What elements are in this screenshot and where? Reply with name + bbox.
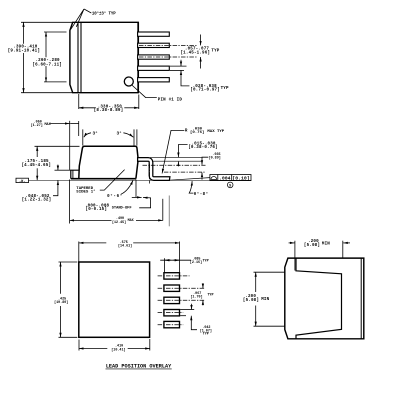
svg-text:.004: .004 (219, 176, 231, 182)
svg-text:SIDES 1°: SIDES 1° (76, 190, 95, 195)
svg-text:[0.76]: [0.76] (190, 130, 204, 135)
svg-text:[1.27]: [1.27] (31, 123, 43, 128)
svg-text:TYP: TYP (221, 87, 229, 91)
svg-text:LEAD POSITION OVERLAY: LEAD POSITION OVERLAY (106, 363, 172, 369)
svg-text:MAX: MAX (128, 219, 135, 223)
svg-text:[9.91-10.41]: [9.91-10.41] (8, 49, 40, 54)
svg-text:TYP: TYP (203, 333, 209, 337)
svg-text:TYP: TYP (203, 260, 209, 264)
svg-text:TYP: TYP (207, 294, 213, 298)
svg-text:[0.89]: [0.89] (209, 155, 221, 160)
svg-text:[5.08]: [5.08] (243, 298, 259, 303)
svg-text:3°: 3° (93, 131, 98, 136)
svg-text:MIN: MIN (322, 242, 330, 246)
svg-text:S: S (229, 184, 232, 188)
svg-text:[10.41]: [10.41] (111, 347, 125, 352)
svg-text:[5.08]: [5.08] (304, 243, 320, 248)
svg-text:[0-0.15]: [0-0.15] (86, 207, 108, 212)
svg-text:[1.70]: [1.70] (190, 294, 202, 299)
svg-text:[4.45-4.65]: [4.45-4.65] (21, 163, 51, 168)
svg-text:TYP: TYP (211, 50, 219, 54)
svg-text:[1.22-1.32]: [1.22-1.32] (22, 198, 52, 203)
svg-text:0°-8°: 0°-8° (194, 192, 209, 197)
svg-text:R: R (185, 130, 188, 134)
svg-text:[12.45]: [12.45] (112, 220, 126, 225)
svg-text:[6.60-7.11]: [6.60-7.11] (32, 62, 62, 67)
svg-text:STAND-OFF: STAND-OFF (112, 206, 132, 210)
svg-text:-W-: -W- (19, 180, 25, 184)
svg-text:[10.80]: [10.80] (54, 300, 68, 305)
svg-text:MAX TYP: MAX TYP (207, 130, 224, 134)
svg-text:0°-6°: 0°-6° (107, 194, 123, 199)
svg-text:[0.71-0.97]: [0.71-0.97] (190, 88, 220, 93)
svg-text:[1.45-1.96]: [1.45-1.96] (180, 50, 210, 55)
svg-text:PIN #1 ID: PIN #1 ID (158, 98, 183, 102)
svg-text:3°: 3° (117, 131, 122, 136)
svg-text:MIN: MIN (261, 298, 269, 302)
svg-text:[0.10]: [0.10] (232, 176, 249, 182)
svg-text:10°±3° TYP: 10°±3° TYP (92, 12, 116, 17)
svg-text:[8.38-8.89]: [8.38-8.89] (94, 108, 124, 113)
svg-text:[14.61]: [14.61] (118, 243, 132, 248)
svg-text:[2.16]: [2.16] (190, 260, 202, 265)
svg-text:MAX: MAX (45, 123, 52, 127)
svg-text:[0.38-0.76]: [0.38-0.76] (188, 145, 218, 150)
